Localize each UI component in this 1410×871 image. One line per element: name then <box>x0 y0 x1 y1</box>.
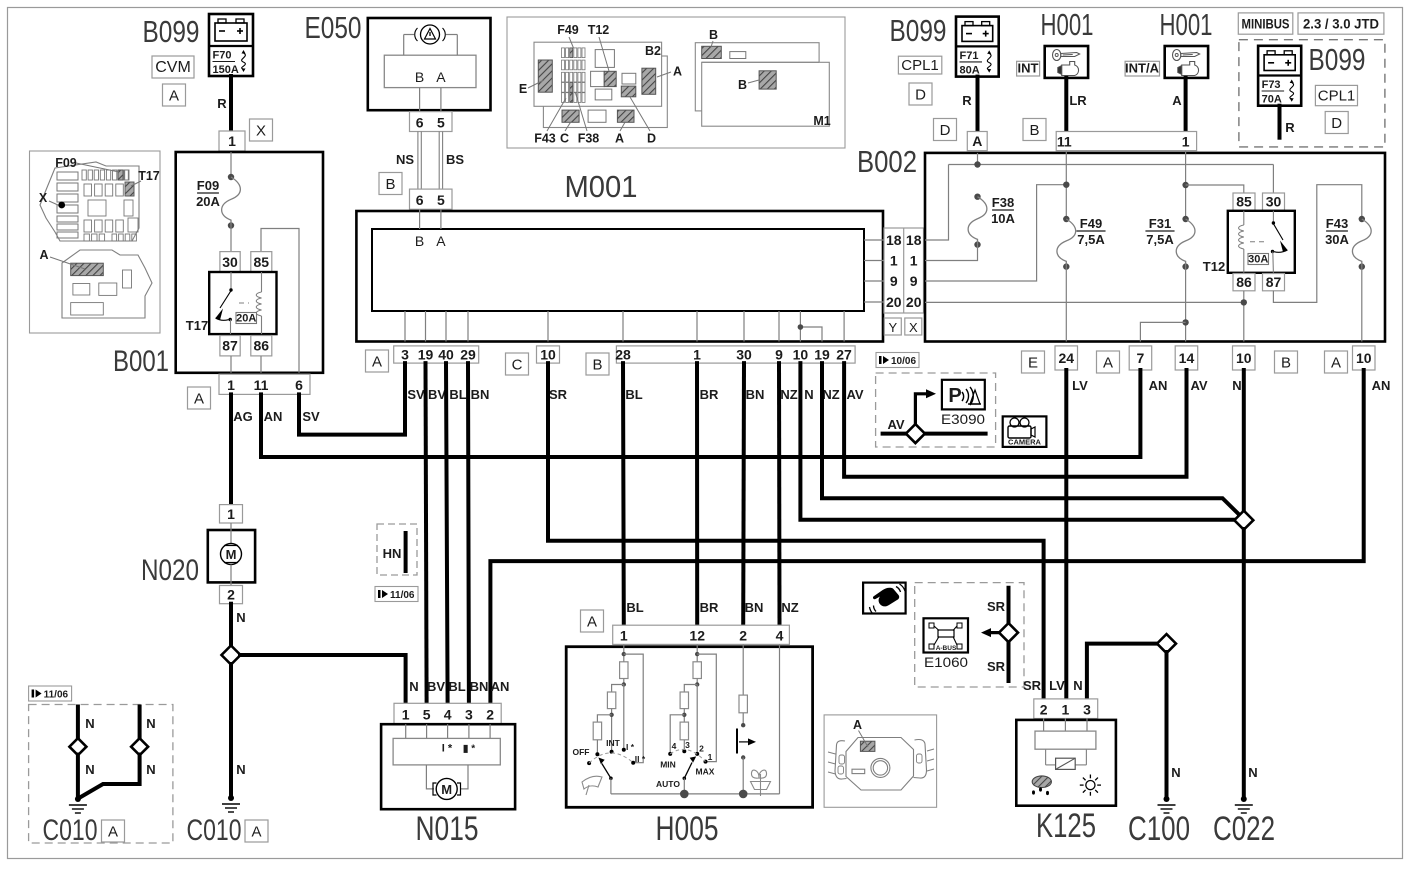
svg-text:A: A <box>853 718 862 732</box>
wire labels NZ N NZ AV <box>780 387 864 402</box>
svg-text:NS: NS <box>396 152 414 167</box>
wire AV M001-27 to B002-14 <box>844 363 1186 477</box>
svg-text:9: 9 <box>890 273 898 289</box>
HN wire annotation dashed box <box>377 524 417 575</box>
svg-text:A: A <box>108 824 118 841</box>
inset bottom labels F43 C F38 A D <box>534 93 656 146</box>
svg-text:SV: SV <box>302 409 320 424</box>
H005 position labels 4 3 2 1 MIN MAX AUTO <box>656 740 715 789</box>
svg-text:B: B <box>415 233 424 249</box>
svg-text:3: 3 <box>401 347 409 363</box>
ground C010 variant <box>69 796 87 813</box>
svg-text:T12: T12 <box>588 23 610 37</box>
B002 pin 14 <box>1175 346 1198 370</box>
svg-text:5: 5 <box>437 192 445 208</box>
svg-text:A: A <box>436 69 446 85</box>
svg-text:19: 19 <box>418 347 434 363</box>
svg-text:T17: T17 <box>186 318 208 333</box>
ground C100 <box>1158 796 1176 813</box>
wire N B002-10 to ground node <box>1242 370 1246 511</box>
svg-text:9: 9 <box>910 273 918 289</box>
svg-text:HN: HN <box>383 546 402 561</box>
svg-text:7: 7 <box>1137 350 1145 366</box>
svg-text:INT: INT <box>1018 61 1039 76</box>
svg-text:MINIBUS: MINIBUS <box>1242 16 1290 32</box>
E3090 splice diamond <box>906 424 925 443</box>
svg-text:2: 2 <box>739 628 747 644</box>
svg-text:NZ: NZ <box>780 387 797 402</box>
fuse F49 7.5A <box>1057 216 1076 270</box>
svg-text:BS: BS <box>446 152 464 167</box>
wire BR M001-1 to H005-12 <box>695 363 699 625</box>
horn warning icon <box>863 583 906 614</box>
M001 internal bracket pins 10 19 <box>798 311 822 342</box>
svg-text:E050: E050 <box>305 10 362 45</box>
fuse label F38 10A <box>991 195 1015 226</box>
body computer M001 box <box>356 211 883 342</box>
svg-text:LV: LV <box>1049 678 1065 693</box>
wire 86 to connector pin 11 <box>260 356 262 373</box>
variant label MINIBUS <box>1238 13 1293 34</box>
svg-text:F43: F43 <box>1326 216 1348 231</box>
svg-text:B099: B099 <box>890 13 947 48</box>
svg-text:BR: BR <box>700 387 719 402</box>
wire labels BL BR BN below M001 group B <box>625 387 764 402</box>
wire T12 30 feed <box>1272 165 1274 194</box>
B002 pin 10 <box>1233 346 1256 370</box>
svg-text:28: 28 <box>615 347 631 363</box>
M001 connector group B pins <box>615 346 855 363</box>
junction box B001 <box>176 152 323 373</box>
inset small fuse grid <box>562 48 586 102</box>
svg-text:C010: C010 <box>43 814 98 847</box>
svg-text:D: D <box>647 132 656 146</box>
E1060 arrow to A-BUS <box>981 628 1009 637</box>
M001 internal block <box>372 229 864 311</box>
svg-text:1: 1 <box>693 347 701 363</box>
junction node A2 <box>1182 182 1188 188</box>
svg-text:10/06: 10/06 <box>891 356 916 367</box>
svg-text:SV: SV <box>407 387 425 402</box>
relay value 30A <box>1248 253 1269 265</box>
B002 pin 7 <box>1129 346 1152 370</box>
svg-text:N: N <box>146 762 155 777</box>
inset module B target top <box>702 46 722 58</box>
wire LV B002-24 to K125-1 <box>1064 370 1068 699</box>
svg-text:30A: 30A <box>1325 232 1349 247</box>
H005 middle selector contacts <box>668 749 707 763</box>
svg-text:MIN: MIN <box>660 760 676 770</box>
svg-text:D: D <box>1331 115 1342 132</box>
svg-text:B: B <box>385 176 395 193</box>
svg-text:1: 1 <box>1182 134 1190 150</box>
svg-text:10A: 10A <box>991 211 1015 226</box>
svg-text:A: A <box>673 65 682 79</box>
svg-text:D: D <box>940 122 951 139</box>
rain light sensor K125 <box>1016 719 1116 806</box>
svg-text:MAX: MAX <box>696 767 715 777</box>
svg-text:K125: K125 <box>1036 807 1096 845</box>
svg-text:6: 6 <box>416 115 424 131</box>
svg-text:II *: II * <box>635 754 646 764</box>
svg-text:I *: I * <box>626 742 635 752</box>
svg-text:CVM: CVM <box>155 59 191 76</box>
svg-text:C: C <box>512 357 523 374</box>
wire pin A to node <box>977 153 979 165</box>
svg-text:B: B <box>415 69 424 85</box>
inset connector D target <box>621 86 636 97</box>
svg-text:F49: F49 <box>1080 216 1102 231</box>
fuse label F43 30A <box>1325 216 1349 247</box>
svg-text:CAMERA: CAMERA <box>1008 438 1041 447</box>
version label 11/06 (C010) <box>29 686 72 701</box>
loom wires NS BS <box>418 132 443 190</box>
svg-text:A: A <box>169 88 179 105</box>
svg-text:C022: C022 <box>1213 810 1275 848</box>
svg-text:AV: AV <box>1190 378 1207 393</box>
washer pump N015 <box>381 724 515 809</box>
connector letter Y <box>884 318 901 335</box>
svg-text:30: 30 <box>222 254 238 270</box>
connector box X <box>250 119 273 141</box>
svg-text:A: A <box>39 248 48 262</box>
svg-text:CPL1: CPL1 <box>901 57 939 74</box>
svg-text:86: 86 <box>254 338 270 354</box>
inset relay T12 target <box>604 71 616 86</box>
inset label X <box>39 191 65 208</box>
svg-text:40: 40 <box>438 347 454 363</box>
svg-text:SR: SR <box>987 659 1006 674</box>
connector letter A <box>188 387 211 409</box>
inset label A right <box>657 65 682 79</box>
ground splice diamond <box>1234 511 1253 530</box>
inset dashboard fuse box drawing <box>507 17 845 148</box>
E1060 tap wire SR <box>1007 588 1011 681</box>
svg-text:1: 1 <box>227 506 235 522</box>
svg-text:A: A <box>436 233 446 249</box>
svg-text:N: N <box>409 679 418 694</box>
ignition switch H001 key symbol (first) <box>1045 46 1088 78</box>
hazard warning symbol <box>415 25 446 44</box>
inset hatched target A <box>860 741 875 751</box>
camera icon box <box>1003 416 1047 447</box>
M001 internal pin stubs bottom <box>405 311 779 342</box>
wiper switch H005 connector letter A <box>581 610 604 632</box>
svg-text:I *: I * <box>442 743 453 755</box>
svg-text:19: 19 <box>814 347 830 363</box>
K125 light icon <box>1080 775 1101 796</box>
svg-text:B: B <box>1029 122 1039 139</box>
svg-text:F70: F70 <box>213 50 232 62</box>
svg-text:N: N <box>1248 765 1257 780</box>
code box INT <box>1017 61 1040 77</box>
fuse label F49 7,5A <box>1076 216 1105 247</box>
svg-text:1: 1 <box>890 253 898 269</box>
inset label F09 <box>55 156 119 172</box>
svg-text:20A: 20A <box>196 194 220 209</box>
wire labels SV BV BL BN below M001 <box>407 387 489 402</box>
connector letter B <box>1275 351 1298 373</box>
wire BN M001-30 to H005-2 <box>741 363 746 625</box>
svg-text:10: 10 <box>540 347 556 363</box>
svg-text:AN: AN <box>1149 378 1168 393</box>
svg-text:F49: F49 <box>557 23 579 37</box>
connector letter B <box>1023 119 1046 141</box>
wire F31 to pin 14 <box>1185 267 1187 342</box>
ground C010 <box>222 795 240 812</box>
wire R from B099 to B001 pin 1 <box>229 76 233 132</box>
wiper motor N020 <box>208 523 255 586</box>
svg-text:B099: B099 <box>143 14 200 49</box>
inset bottom connector A target <box>617 110 634 122</box>
inset relay blocks <box>591 50 636 100</box>
connector letter A <box>366 350 389 372</box>
svg-text:BV: BV <box>427 679 445 694</box>
svg-text:B: B <box>738 78 747 92</box>
wire N K125-3 to ground C100 <box>1087 644 1158 699</box>
svg-text:11: 11 <box>254 377 269 393</box>
svg-text:85: 85 <box>1236 194 1252 210</box>
svg-text:F31: F31 <box>1149 216 1171 231</box>
svg-text:2: 2 <box>1040 702 1048 718</box>
E1060 splice diamond <box>999 623 1018 642</box>
pin 1 of B001 <box>219 131 245 151</box>
rain light sensor K125 connector pins 2 1 3 <box>1034 699 1098 719</box>
H005 common return bus <box>611 644 780 798</box>
wire AN B001-11 to B002-7 <box>261 370 1140 457</box>
version label 11/06 (HN) <box>375 587 418 602</box>
svg-text:F73: F73 <box>1262 79 1281 91</box>
inset bottom white block <box>588 110 606 122</box>
battery B099 with fuse F73 70A (variant) <box>1258 46 1301 106</box>
fuse F43 30A <box>1352 216 1371 270</box>
H005 washer branch <box>737 644 756 794</box>
svg-text:F38: F38 <box>992 195 1014 210</box>
svg-text:CPL1: CPL1 <box>1318 88 1356 105</box>
M001 connector group C pin 10 <box>537 346 560 363</box>
svg-text:11/06: 11/06 <box>44 690 69 701</box>
svg-text:N020: N020 <box>141 554 199 587</box>
variant label 2.3 / 3.0 JTD <box>1298 13 1384 34</box>
M001-B002 interconnect pins 18 1 9 20 <box>884 228 924 313</box>
splice diamond C100 <box>1157 634 1176 653</box>
wire 87 to fuse F43 <box>1273 185 1361 303</box>
wires B A to connector <box>420 88 441 112</box>
svg-text:10: 10 <box>793 347 809 363</box>
svg-text:12: 12 <box>689 628 705 644</box>
parking sensor E3090 icon <box>942 380 985 410</box>
C010 variant dashed box <box>29 705 173 844</box>
svg-text:86: 86 <box>1236 274 1252 290</box>
code box CPL1 (variant) <box>1315 85 1357 105</box>
connector pins 11 1 of B002 <box>1056 132 1196 151</box>
svg-text:A: A <box>1172 93 1182 108</box>
svg-text:N: N <box>1073 678 1082 693</box>
svg-text:C: C <box>560 132 569 146</box>
variant wire N left <box>76 707 80 739</box>
svg-text:M1: M1 <box>813 114 830 128</box>
wire AN B002-10A to N015-2 <box>490 370 1363 703</box>
inset connector A target <box>642 68 656 94</box>
svg-text:1: 1 <box>227 377 235 393</box>
wire N N020-2 to splice <box>229 604 233 646</box>
splice diamond N020 <box>222 646 241 665</box>
svg-text:NZ: NZ <box>781 600 798 615</box>
svg-text:4: 4 <box>776 628 784 644</box>
svg-text:R: R <box>962 93 972 108</box>
inset bottom fuse C target <box>562 110 579 122</box>
svg-text:A: A <box>194 391 204 408</box>
wire N splice to ground C010 <box>229 664 233 796</box>
E050 internal block <box>384 35 476 88</box>
wire 87 to connector pin 1 <box>230 356 232 373</box>
svg-text:BL: BL <box>448 679 465 694</box>
svg-text:A: A <box>587 614 597 631</box>
svg-text:150A: 150A <box>213 64 239 76</box>
svg-text:AN: AN <box>264 409 283 424</box>
svg-text:SR: SR <box>987 599 1006 614</box>
svg-text:D: D <box>915 87 926 104</box>
svg-text:INT/A: INT/A <box>1125 61 1160 76</box>
location box D <box>909 83 932 105</box>
svg-text:BN: BN <box>745 600 764 615</box>
connector letter B <box>379 173 402 195</box>
location box D (variant) <box>1325 112 1348 134</box>
inset steering column drawing <box>824 715 937 807</box>
H005 position labels OFF INT I II <box>573 738 646 764</box>
svg-text:LV: LV <box>1072 378 1088 393</box>
svg-text:3: 3 <box>1083 702 1091 718</box>
svg-text:H005: H005 <box>656 810 719 848</box>
relay T12 pin 85 <box>1233 193 1255 210</box>
ignition switch H001 key symbol (second) <box>1165 46 1208 78</box>
svg-text:AN: AN <box>491 679 510 694</box>
wire R from B099 to B002 pin A <box>976 77 980 132</box>
svg-text:A: A <box>1103 355 1113 372</box>
wire pin 9 to LR node <box>925 185 1066 281</box>
svg-text:X: X <box>909 320 918 335</box>
variant wire left to ground <box>76 755 80 798</box>
E1060 dashed box <box>915 583 1024 687</box>
svg-text:SR: SR <box>549 387 568 402</box>
svg-text:R: R <box>1285 120 1295 135</box>
svg-text:1: 1 <box>708 752 713 762</box>
svg-text:N: N <box>146 716 155 731</box>
inset label B top <box>709 28 718 47</box>
wire from relay 85 up and over to pin 6 <box>261 229 299 373</box>
washer pump N015 connector pins 1 5 4 3 2 <box>394 703 501 724</box>
svg-text:A-BUS: A-BUS <box>936 645 957 652</box>
fuse F38 10A <box>968 194 987 248</box>
wire labels N BV BL BN AN above N015 <box>409 679 509 694</box>
wire F43 to pin 10 right <box>1361 267 1363 342</box>
svg-text:4: 4 <box>444 707 452 723</box>
relay T12 pin 87 <box>1263 274 1285 291</box>
svg-text:N015: N015 <box>416 810 479 848</box>
M001 internal stub pin 27 <box>843 311 845 342</box>
inset rear modules drawing <box>695 43 829 127</box>
relay T12 pin 30 <box>1263 193 1285 210</box>
svg-text:▮ *: ▮ * <box>463 744 475 755</box>
svg-text:F38: F38 <box>578 132 600 146</box>
E3090 tap wire AV <box>883 432 986 436</box>
H005 left selector contacts <box>587 748 635 765</box>
svg-text:6: 6 <box>295 377 303 393</box>
connector letter A <box>245 820 268 842</box>
location box A <box>163 84 186 106</box>
svg-text:N: N <box>804 387 813 402</box>
variant splice right <box>131 738 148 755</box>
inset label A <box>39 248 85 269</box>
svg-text:F09: F09 <box>55 156 77 170</box>
relay T17 <box>209 272 276 334</box>
svg-text:18: 18 <box>906 232 922 248</box>
connector letter A right <box>1325 351 1348 373</box>
ground C022 <box>1235 796 1253 813</box>
svg-text:Y: Y <box>888 320 897 335</box>
inset fuse box location drawing <box>30 151 161 333</box>
svg-text:B002: B002 <box>857 144 917 179</box>
svg-text:27: 27 <box>836 347 852 363</box>
connector letter B <box>586 353 609 375</box>
M001 connector pins 6 5 <box>410 189 453 209</box>
svg-text:F71: F71 <box>960 50 979 62</box>
svg-text:2: 2 <box>227 587 235 603</box>
svg-text:AV: AV <box>846 387 863 402</box>
svg-text:BL: BL <box>625 387 642 402</box>
wire from pin 1 to fuse F09 <box>230 152 232 177</box>
code box CVM <box>152 56 194 78</box>
svg-text:1: 1 <box>1062 702 1070 718</box>
svg-text:B2: B2 <box>645 44 661 58</box>
svg-text:7,5A: 7,5A <box>1077 232 1105 247</box>
svg-text:1: 1 <box>228 133 236 149</box>
svg-text:BL: BL <box>449 387 466 402</box>
svg-text:E3090: E3090 <box>941 411 985 427</box>
inset label T17 <box>131 169 160 186</box>
svg-text:B: B <box>709 28 718 42</box>
svg-text:BN: BN <box>471 387 490 402</box>
svg-text:10: 10 <box>1356 350 1372 366</box>
wiper motor N020 pin 2 <box>220 586 243 604</box>
connector letter D <box>934 119 957 141</box>
H005 middle wiper arm <box>683 756 697 794</box>
svg-text:2: 2 <box>699 744 704 754</box>
svg-text:B001: B001 <box>113 345 169 378</box>
svg-text:6: 6 <box>416 192 424 208</box>
svg-text:7,5A: 7,5A <box>1146 232 1174 247</box>
svg-text:B099: B099 <box>1309 42 1366 77</box>
battery B099 with fuse F70 150A <box>209 14 253 76</box>
wire N splice to N015-1 <box>240 655 406 703</box>
svg-text:B: B <box>592 357 602 374</box>
svg-text:BL: BL <box>626 600 643 615</box>
wire labels SR LV N above K125 <box>1023 678 1083 693</box>
E3090 branch <box>915 389 936 433</box>
svg-text:4: 4 <box>672 741 677 751</box>
fuse label F31 7,5A <box>1145 216 1174 247</box>
wire 86 to pin 10 <box>1243 291 1245 342</box>
svg-text:T17: T17 <box>138 169 160 183</box>
E050 connector pins 6 5 <box>410 112 453 132</box>
wire AG B001-1 to N020-1 <box>229 394 233 504</box>
svg-text:11/06: 11/06 <box>390 590 415 601</box>
wire LR from H001 to B002 pin 11 <box>1064 78 1068 132</box>
svg-text:9: 9 <box>775 347 783 363</box>
fuse F09 20A <box>222 174 241 229</box>
svg-text:BV: BV <box>428 387 446 402</box>
svg-text:AN: AN <box>1372 378 1391 393</box>
